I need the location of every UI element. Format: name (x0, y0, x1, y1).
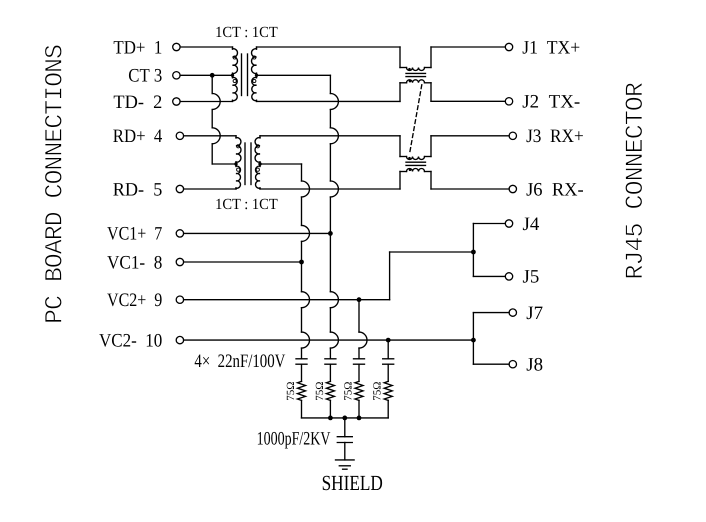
svg-text:J8: J8 (526, 355, 543, 376)
svg-text:J4: J4 (523, 214, 540, 235)
svg-text:4× 22nF/100V: 4× 22nF/100V (194, 351, 285, 372)
svg-text:75Ω: 75Ω (372, 382, 384, 401)
svg-text:J3 RX+: J3 RX+ (526, 126, 584, 147)
svg-text:VC2+ 9: VC2+ 9 (107, 290, 162, 311)
svg-text:75Ω: 75Ω (285, 382, 297, 401)
svg-text:75Ω: 75Ω (314, 382, 326, 401)
svg-text:VC2- 10: VC2- 10 (99, 330, 162, 351)
svg-text:1000pF/2KV: 1000pF/2KV (257, 428, 331, 449)
svg-text:SHIELD: SHIELD (322, 471, 383, 495)
svg-text:J5: J5 (523, 267, 540, 288)
svg-text:1CT : 1CT: 1CT : 1CT (215, 24, 278, 41)
svg-text:J1 TX+: J1 TX+ (522, 37, 580, 58)
svg-text:1CT : 1CT: 1CT : 1CT (215, 196, 278, 213)
svg-text:VC1- 8: VC1- 8 (107, 252, 162, 273)
svg-text:CT 3: CT 3 (128, 66, 162, 87)
svg-text:RD- 5: RD- 5 (113, 179, 163, 200)
svg-text:J2 TX-: J2 TX- (522, 92, 580, 113)
svg-text:PC BOARD CONNECTIONS: PC BOARD CONNECTIONS (40, 44, 69, 324)
svg-text:75Ω: 75Ω (343, 382, 355, 401)
svg-text:J6 RX-: J6 RX- (526, 179, 584, 200)
svg-text:J7: J7 (526, 303, 543, 324)
svg-text:RD+ 4: RD+ 4 (113, 126, 163, 147)
svg-text:TD- 2: TD- 2 (113, 92, 162, 113)
svg-text:VC1+ 7: VC1+ 7 (107, 224, 162, 245)
svg-text:TD+ 1: TD+ 1 (113, 37, 162, 58)
svg-text:RJ45 CONNECTOR: RJ45 CONNECTOR (621, 82, 650, 280)
